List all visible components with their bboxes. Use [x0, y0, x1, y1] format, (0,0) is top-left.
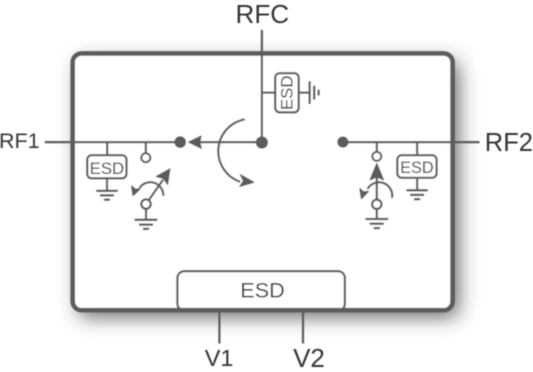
wire ESD box to ground (RF1) [106, 178, 108, 191]
arrowhead of series arm (points left at RF1 node) [189, 136, 202, 149]
ground under RF2 ESD [406, 190, 427, 199]
wire ESD box to ground (RF2) [416, 178, 418, 191]
rotation arc of shunt switch SW2 [368, 182, 393, 198]
wire SW1 pivot to ground [145, 209, 147, 219]
pivot circle of SW2 [372, 200, 381, 209]
svg-text:V2: V2 [293, 343, 325, 372]
ESD box at RFC (rotated) [275, 73, 299, 112]
ESD box at RF1 [87, 155, 126, 178]
svg-text:RF1: RF1 [0, 129, 40, 153]
node RF1 (junction dot) [174, 136, 186, 148]
node RFC (junction dot) [256, 136, 268, 148]
wire module bottom border over ESD block [175, 308, 347, 313]
svg-text:ESD: ESD [240, 278, 284, 303]
wire RF1 lead (horizontal) [45, 141, 181, 143]
contact circle at RF1 shunt (open terminal) [145, 142, 147, 153]
shunt switch arm SW2 (closed, points up) [376, 177, 378, 204]
wire V1 lead [218, 312, 220, 344]
module outline U1 [73, 53, 453, 310]
wire RFC lead to top ESD box [262, 91, 275, 93]
svg-text:ESD: ESD [90, 159, 125, 178]
svg-text:RFC: RFC [235, 0, 289, 29]
shunt switch arm SW1 (open, thrown up-right) [146, 180, 163, 204]
module outline U1 drop shadow [78, 61, 459, 318]
node RF2 (junction dot) [337, 137, 348, 148]
rotation arc of series switch (RFC throw indicator) [218, 119, 245, 182]
ground under RF1 ESD [96, 191, 118, 200]
wire RFC lead (vertical) [261, 30, 263, 143]
svg-text:RF2: RF2 [485, 129, 533, 157]
ESD box at RF2 [397, 155, 436, 178]
wire RF2 lead (horizontal) [343, 141, 480, 143]
wire SW2 pivot to ground [376, 210, 378, 220]
ground under SW1 [135, 220, 158, 229]
wire RF2 line to ESD box [416, 142, 418, 155]
rotation arc of shunt switch SW1 [140, 182, 164, 196]
arrowhead of series rotation arc (points ESE) [240, 175, 254, 187]
svg-text:V1: V1 [205, 345, 234, 371]
wire V2 lead [302, 312, 304, 344]
arrowhead of SW1 rotation arc (points SW) [132, 186, 140, 195]
arrowhead of SW2 rotation arc (points SW) [360, 189, 368, 198]
ESD block (bottom, spans V1/V2) [177, 271, 345, 311]
wire RF1 line to ESD box [106, 142, 108, 155]
wire series arm RFC to RF1 [197, 141, 262, 143]
ground under SW2 [365, 219, 388, 228]
svg-text:ESD: ESD [400, 159, 433, 177]
contact circle at RF2 shunt (closed terminal) [376, 142, 378, 152]
ground at RFC ESD (rotated, points right) [310, 81, 319, 104]
pivot circle of SW1 [141, 199, 150, 208]
svg-text:ESD: ESD [278, 76, 297, 111]
wire top ESD box to ground [299, 91, 310, 93]
